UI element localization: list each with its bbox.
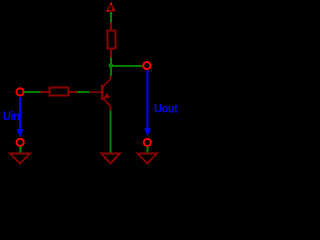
wire junction to output terminal: [111, 65, 143, 67]
wire R1 to collector: [110, 57, 112, 76]
wire emitter to ground: [110, 110, 112, 152]
svg-text:Uin: Uin: [3, 111, 20, 123]
transistor Q1 collector slash: [103, 79, 110, 87]
wire R2 to base: [77, 91, 89, 93]
pin R1 bottom: [110, 49, 112, 57]
wire terminal to ground (output): [146, 146, 148, 152]
resistor R2 (base resistor, horizontal): [50, 88, 69, 96]
wire VCC to R1 top pin: [110, 12, 112, 23]
voltage arrow Uout: [144, 70, 151, 136]
transistor Q1 base bar: [101, 85, 104, 100]
svg-text:Uout: Uout: [154, 102, 178, 116]
ground symbol (emitter): [101, 154, 120, 164]
resistor R1 (collector resistor, vertical): [107, 31, 115, 49]
transistor Q1 emitter pin: [109, 106, 111, 111]
ground symbol (output): [138, 154, 157, 164]
pin R2 right: [69, 91, 77, 93]
transistor Q1 base pin: [89, 91, 100, 93]
input ground terminal: [17, 139, 24, 146]
voltage arrow Uin: [17, 97, 24, 138]
ground symbol (input): [10, 154, 30, 164]
junction node collector/output: [109, 63, 114, 68]
transistor Q1 emitter arrowhead: [104, 94, 109, 99]
output ground terminal: [144, 139, 151, 146]
input terminal: [17, 88, 24, 95]
output terminal: [143, 62, 150, 69]
pin R2 left: [40, 91, 49, 93]
power symbol VCC (up arrow): [107, 3, 115, 12]
wire input terminal to R2: [24, 91, 41, 93]
wire terminal to ground (input): [19, 146, 21, 152]
transistor Q1 collector pin: [109, 76, 111, 79]
pin R1 top: [110, 23, 112, 31]
transistor Q1 emitter slash: [103, 98, 110, 105]
